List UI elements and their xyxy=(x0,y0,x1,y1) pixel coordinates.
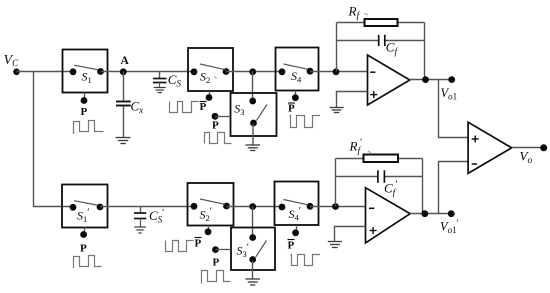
clock dot and wire P of S3 xyxy=(212,113,231,120)
ground under S3 xyxy=(246,145,261,151)
switch S3 contacts and arm xyxy=(249,98,267,127)
wire: bottom rail S4' to opamp U2 inverting input xyxy=(310,206,366,208)
capacitor Cf' xyxy=(378,170,385,183)
waveform Pbar of S4 xyxy=(290,116,321,128)
svg-text:P: P xyxy=(288,240,295,252)
stray mark after Rf xyxy=(365,13,369,15)
switch S1 box xyxy=(63,50,108,93)
waveform Pbar of S2 xyxy=(170,102,199,113)
node U2 output xyxy=(421,210,428,217)
clock stem and dot Pbar of S4' xyxy=(292,225,299,236)
waveform P of S1 xyxy=(74,121,104,135)
wire: U2 feedback left vertical xyxy=(335,159,337,207)
switch S3 box xyxy=(231,93,277,136)
op-amp U1 xyxy=(368,55,410,105)
node Vo1' terminal xyxy=(448,210,455,217)
wire: U1 feedback right vertical xyxy=(424,23,426,80)
node Vo terminal xyxy=(540,144,547,151)
waveform P of S3 xyxy=(205,133,232,144)
node A xyxy=(120,68,127,75)
wire: bottom rail S2' to S4' xyxy=(227,206,283,208)
capacitor Cx xyxy=(116,72,131,138)
U2 minus sign xyxy=(369,207,374,209)
junction node to S3 xyxy=(249,68,256,75)
junction node to S3' xyxy=(249,203,256,210)
U1 minus sign xyxy=(370,71,375,73)
capacitor Cs' xyxy=(134,207,146,227)
wire: U2 non-inverting input xyxy=(335,227,366,242)
U3 minus sign xyxy=(472,163,477,165)
clock stem and dot P of S1 xyxy=(81,93,88,104)
ground under Cs xyxy=(154,88,166,93)
wire: Vo1' up to U3 - input xyxy=(439,162,469,214)
wire: branch vertical to lower path xyxy=(34,72,74,207)
clock dot and wire P of S3' xyxy=(212,246,231,253)
wire: junction down into S3 xyxy=(252,72,254,102)
svg-text:CS′: CS′ xyxy=(149,208,164,225)
ground under Cx xyxy=(116,138,131,144)
U1 plus sign xyxy=(370,91,377,98)
waveform Pbar of S2' xyxy=(166,241,194,252)
switch S2' box xyxy=(188,183,234,226)
resistor Rf' xyxy=(364,155,399,163)
wire: U1 inner feedback horizontal (capacitor branch) xyxy=(337,40,379,42)
wire: U3 output xyxy=(512,147,544,149)
svg-text:A: A xyxy=(121,55,130,67)
label Pbar of S2 xyxy=(200,101,207,113)
node Vo1 terminal xyxy=(448,76,455,83)
wire: rail S1 to S2 xyxy=(101,71,195,73)
node Vc input terminal xyxy=(13,69,20,76)
label Pbar of S4 xyxy=(288,103,295,115)
switch S4 contacts and arm xyxy=(279,64,314,75)
resistor Rf xyxy=(365,19,398,26)
wire: rail S2 to S4 xyxy=(226,71,282,73)
svg-text:P: P xyxy=(213,257,220,269)
wire: junction down into S3' xyxy=(252,207,254,238)
ground under Cs' xyxy=(134,227,146,233)
switch S1' box xyxy=(62,185,108,228)
U3 plus sign xyxy=(472,136,479,143)
switch S2 box xyxy=(188,48,233,91)
switch S4' box xyxy=(275,182,319,226)
switch S2' contacts and arm xyxy=(191,199,230,210)
switch S1' contacts and arm xyxy=(70,201,104,211)
node U1 inverting input xyxy=(333,68,340,75)
wire: U1 feedback left vertical xyxy=(336,23,338,72)
U2 plus sign xyxy=(370,227,377,234)
svg-text:P: P xyxy=(80,243,87,255)
ground at U2 + input xyxy=(328,242,342,248)
switch S4 box xyxy=(276,48,319,91)
wire: U1 output xyxy=(410,79,452,81)
wire: Vo1 down to U3 + input xyxy=(439,80,469,138)
svg-text:P: P xyxy=(200,101,207,113)
ground under S3' xyxy=(246,279,261,285)
label Pbar of S2' xyxy=(195,238,202,250)
wire: S3 to ground xyxy=(252,124,254,145)
svg-text:P: P xyxy=(195,238,202,250)
capacitor Cf xyxy=(379,35,385,46)
stray mark after S2 xyxy=(215,77,218,78)
switch S4' contacts and arm xyxy=(279,200,314,211)
wire: S3' to ground xyxy=(252,261,254,279)
capacitor Cs xyxy=(153,72,167,88)
switch S3' contacts and arm xyxy=(249,234,266,263)
switch S1 contacts and arm xyxy=(70,65,104,75)
wire: U2 feedback right vertical xyxy=(422,159,424,214)
node U2 inverting input xyxy=(332,203,339,210)
wire: U2 feedback top horizontal xyxy=(336,158,423,160)
wire: U2 output xyxy=(410,213,451,215)
wire: U1 feedback top horizontal xyxy=(337,22,425,24)
clock stem and dot Pbar of S4 xyxy=(292,91,299,102)
wire: top rail from Vc to S1 xyxy=(17,71,74,73)
svg-text:P: P xyxy=(212,120,219,132)
label Pbar of S4' xyxy=(288,240,295,252)
clock stem and dot Pbar of S2 xyxy=(206,91,213,101)
stray mark after Rf' xyxy=(368,151,372,153)
ground at U1 + input xyxy=(330,108,344,113)
svg-text:P: P xyxy=(81,106,88,118)
wire: rail S4 to opamp U1 inverting input xyxy=(310,71,368,73)
waveform Pbar of S4' xyxy=(291,255,321,266)
waveform P of S1' xyxy=(74,256,102,269)
clock stem and dot Pbar of S2' xyxy=(205,226,212,236)
wire: U1 non-inverting input xyxy=(337,92,368,108)
wire: bottom rail S1' to S2' xyxy=(100,206,194,208)
node U1 output xyxy=(422,76,429,83)
switch S2 contacts and arm xyxy=(191,64,230,75)
svg-text:P: P xyxy=(288,103,295,115)
op-amp U2 xyxy=(366,188,411,243)
switch S3' box xyxy=(231,228,275,271)
clock stem and dot P of S1' xyxy=(80,228,87,238)
waveform P of S3' xyxy=(202,271,231,284)
wire: U2 inner feedback horizontal (capacitor branch) xyxy=(336,176,378,178)
op-amp U3 xyxy=(468,122,512,173)
